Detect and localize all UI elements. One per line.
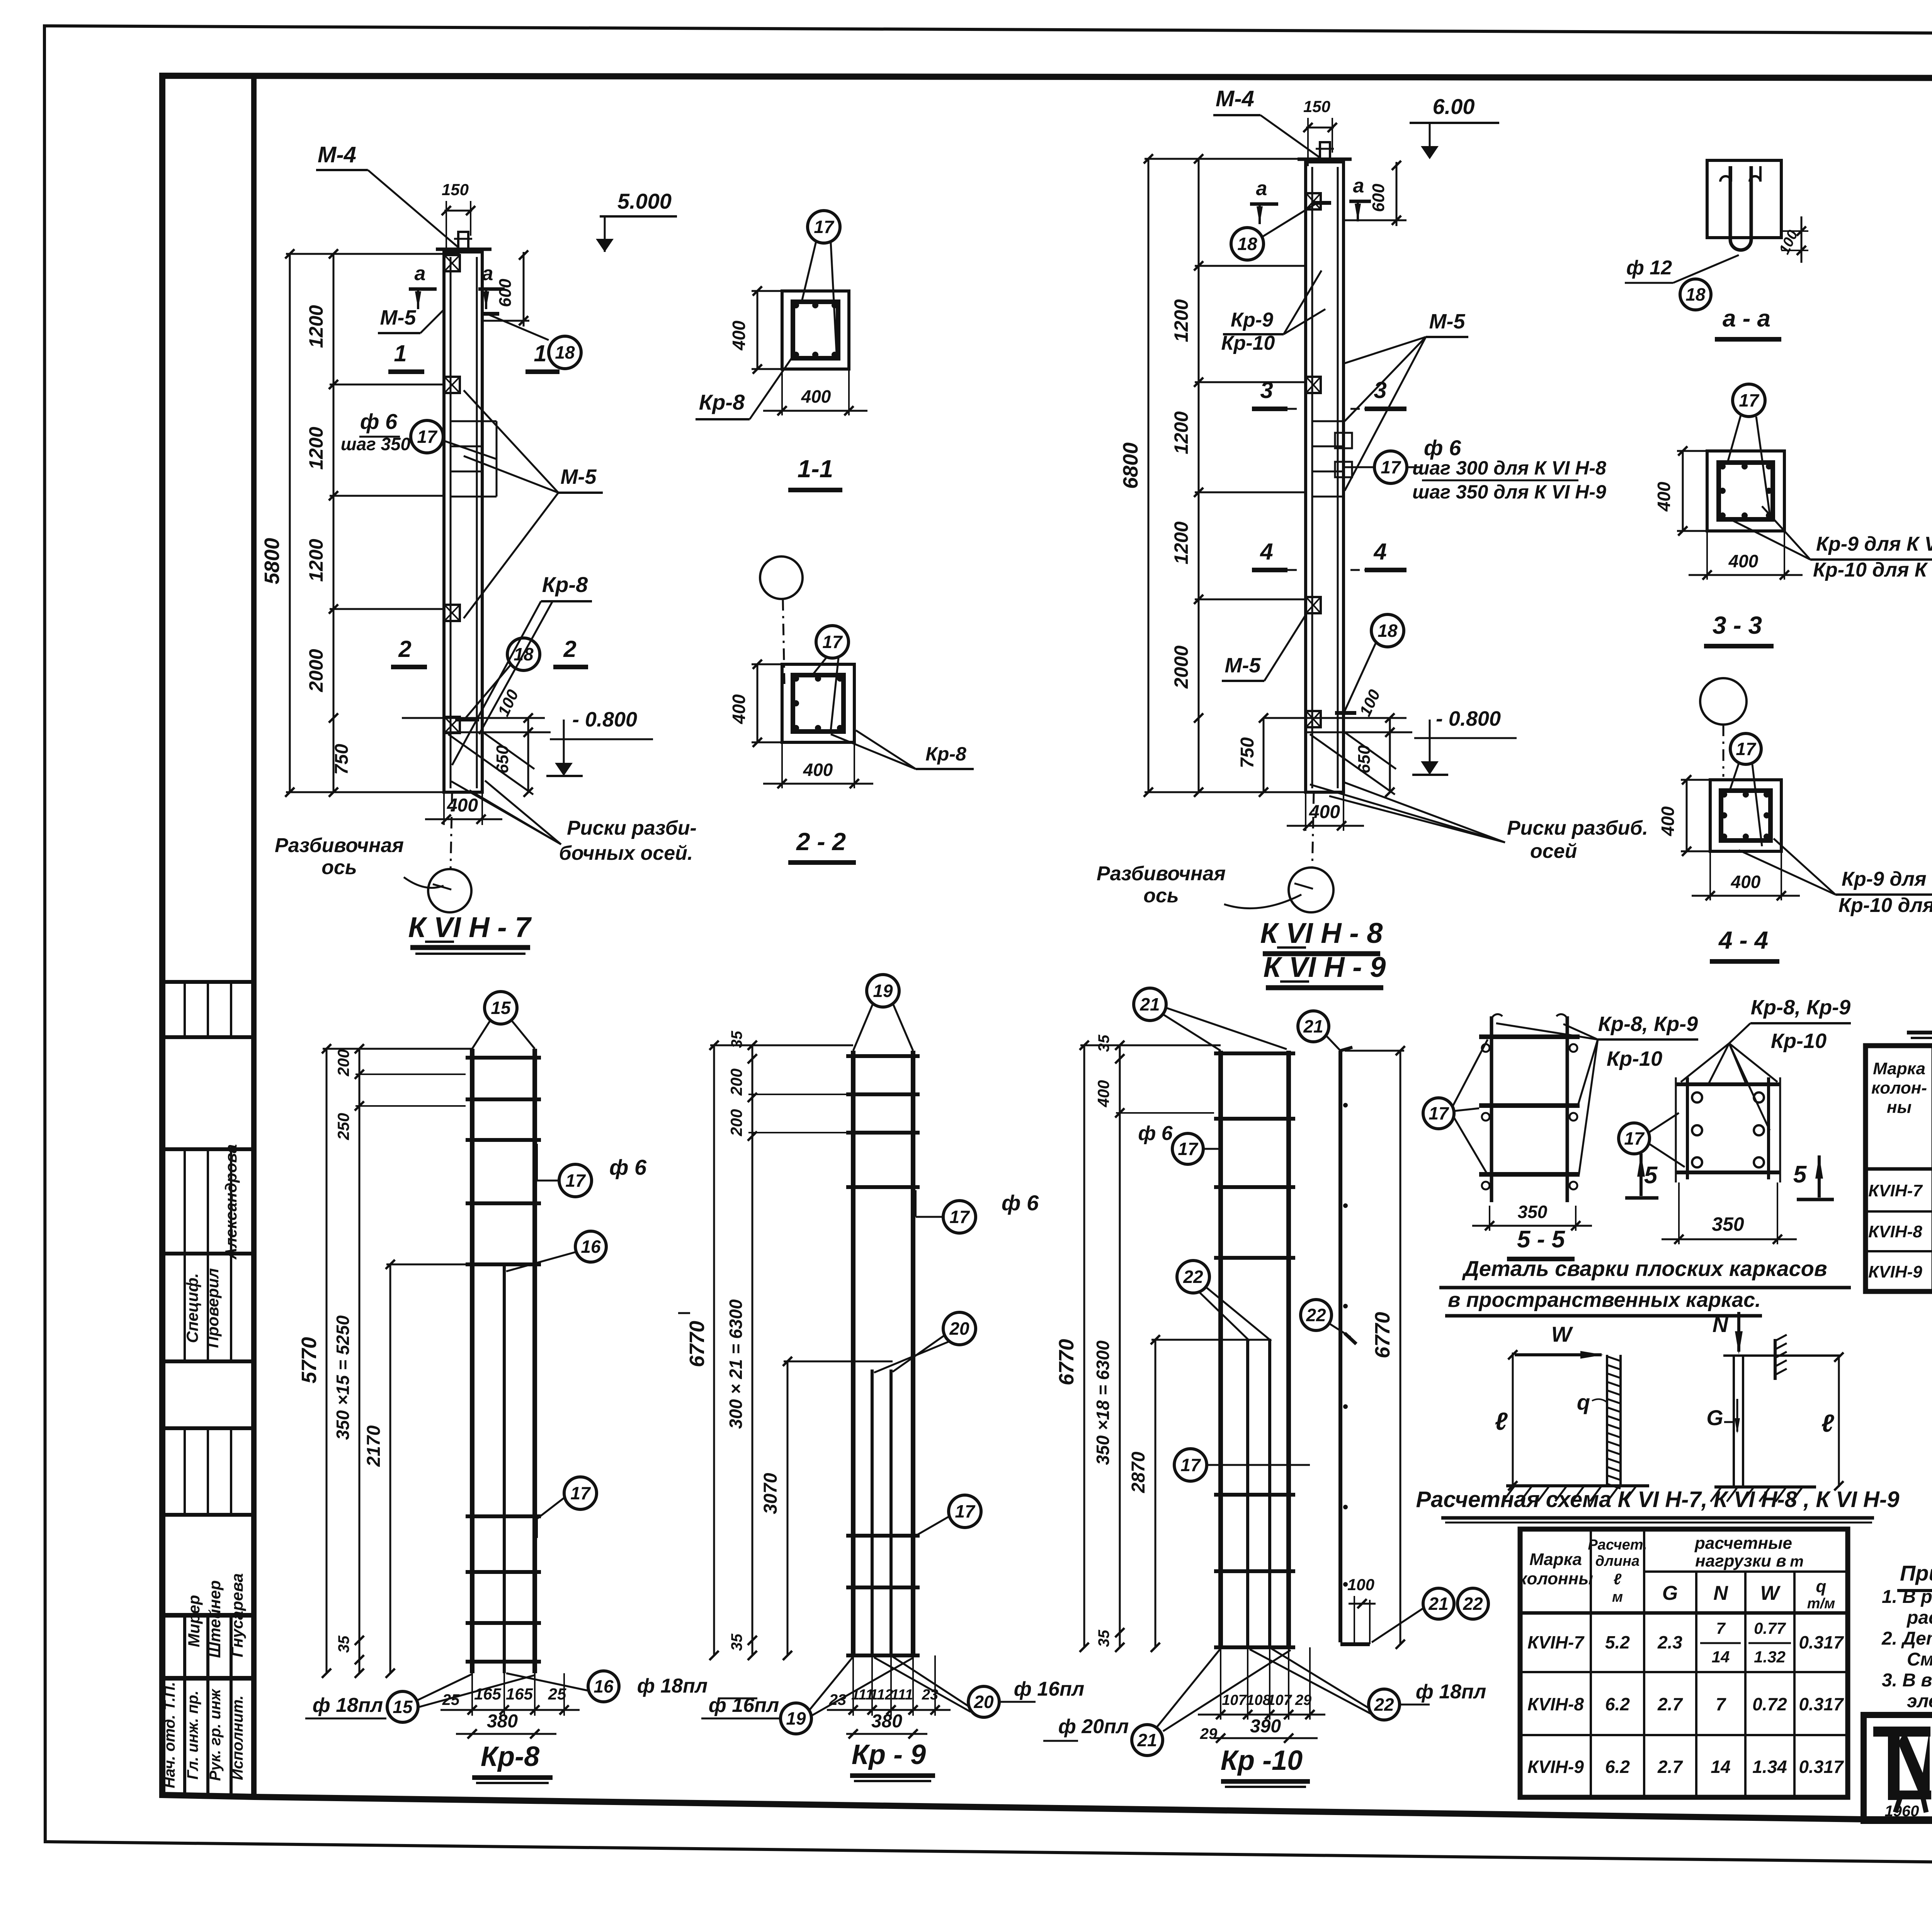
svg-text:Риски разби-: Риски разби- (567, 817, 697, 839)
svg-text:17: 17 (814, 217, 835, 237)
detail 5-5 weld dots (1482, 1044, 1490, 1052)
cage Kr-8 apex and balloon 15 (485, 992, 517, 1024)
svg-text:КVIН-8: КVIН-8 (1527, 1694, 1584, 1714)
svg-text:5: 5 (1793, 1161, 1807, 1188)
svg-text:400: 400 (1658, 806, 1678, 836)
svg-text:- 0.800: - 0.800 (1436, 707, 1501, 730)
svg-text:Исполнит.: Исполнит. (229, 1695, 246, 1780)
svg-text:400: 400 (1731, 872, 1761, 892)
svg-text:390: 390 (1250, 1716, 1281, 1737)
detail a-a dim 100 (1781, 230, 1808, 232)
schema left hatched column (1606, 1355, 1608, 1486)
svg-text:21: 21 (1139, 994, 1160, 1014)
svg-text:Кр -10: Кр -10 (1221, 1745, 1303, 1776)
svg-text:Кр-10 для К VI Н-9: Кр-10 для К VI Н-9 (1838, 894, 1932, 917)
svg-text:нагрузки в: нагрузки в (1695, 1552, 1786, 1570)
label Kr-8 right of 2-2 (856, 730, 916, 769)
svg-text:q: q (1816, 1577, 1827, 1596)
cage Kr-8 rungs (466, 1056, 541, 1060)
cage Kr-8 chain 350x15 (359, 1049, 361, 1673)
svg-text:21: 21 (1137, 1730, 1157, 1750)
single bar poz21-22 (1338, 1051, 1342, 1642)
svg-text:20: 20 (973, 1692, 994, 1712)
detail 5-5 right fan leaders (1681, 1043, 1729, 1082)
cage Kr-9 chain 3070 (787, 1361, 789, 1655)
svg-text:К VI Н - 7: К VI Н - 7 (408, 911, 532, 943)
svg-text:200: 200 (727, 1068, 745, 1096)
section 2-2 stirrup (793, 675, 844, 732)
svg-text:2170: 2170 (364, 1425, 384, 1467)
svg-text:Марка: Марка (1873, 1059, 1925, 1078)
balloon 17 above 4-4 (1730, 733, 1761, 764)
svg-text:2.7: 2.7 (1657, 1694, 1683, 1714)
svg-text:2.3: 2.3 (1657, 1632, 1682, 1652)
svg-text:шаг 350 для К VI Н-9: шаг 350 для К VI Н-9 (1412, 481, 1606, 503)
svg-text:Деталь сварки плоских каркасов: Деталь сварки плоских каркасов (1462, 1256, 1827, 1281)
cage Kr-9 inner bars poz20 (871, 1369, 874, 1655)
svg-text:ℓ: ℓ (1495, 1407, 1508, 1435)
sidebar stamp name block (162, 1613, 254, 1618)
svg-text:35: 35 (1095, 1034, 1112, 1052)
svg-text:2870: 2870 (1128, 1451, 1149, 1493)
svg-text:0.317: 0.317 (1799, 1757, 1844, 1777)
column KVIN-7 base risk lines (425, 717, 545, 719)
svg-text:шаг 350: шаг 350 (341, 434, 411, 454)
dim 400 left of 3-3 (1677, 450, 1707, 452)
svg-text:ℓ: ℓ (1821, 1409, 1834, 1437)
svg-text:35: 35 (335, 1635, 352, 1653)
svg-text:17: 17 (417, 427, 438, 447)
single bar balloon 21 top (1298, 1011, 1329, 1042)
svg-text:Нач. отд. Т.П.: Нач. отд. Т.П. (161, 1682, 178, 1788)
svg-text:350 ×15 = 5250: 350 ×15 = 5250 (333, 1315, 353, 1440)
svg-text:3070: 3070 (760, 1473, 781, 1514)
svg-text:22: 22 (1183, 1267, 1203, 1287)
svg-text:21: 21 (1428, 1594, 1448, 1614)
cage Kr-8 dim 5770 (326, 1049, 328, 1673)
svg-text:ф 6: ф 6 (1138, 1122, 1173, 1145)
logo TD monogram (1873, 1727, 1930, 1737)
cage Kr-9 dim 6770 (713, 1045, 715, 1655)
cage Kr-10 main bars (1218, 1051, 1223, 1647)
svg-text:165: 165 (506, 1685, 533, 1703)
svg-text:ф 6: ф 6 (609, 1155, 647, 1179)
cage Kr-10 bottom dims (1220, 1647, 1221, 1720)
column KVIN-7 top cap plate M-4 (436, 248, 492, 251)
svg-text:К VI Н - 9: К VI Н - 9 (1264, 951, 1386, 983)
svg-text:Кр-8, Кр-9: Кр-8, Кр-9 (1751, 996, 1850, 1019)
svg-text:КVIН-7: КVIН-7 (1527, 1632, 1585, 1652)
svg-text:Штейнер: Штейнер (206, 1580, 224, 1658)
svg-text:2: 2 (398, 636, 411, 662)
svg-text:шаг 300 для К VI Н-8: шаг 300 для К VI Н-8 (1412, 457, 1606, 479)
schema right ground (1714, 1485, 1816, 1489)
svg-text:ф 12: ф 12 (1626, 257, 1672, 279)
dim 600 right of top (482, 320, 529, 322)
svg-text:Кр-10 для К VI Н-9: Кр-10 для К VI Н-9 (1813, 559, 1932, 581)
svg-text:29: 29 (1295, 1692, 1311, 1708)
svg-text:а: а (415, 262, 426, 285)
svg-text:ось: ось (1143, 885, 1179, 907)
schema right dim (1838, 1356, 1840, 1487)
svg-text:а - а: а - а (1723, 305, 1770, 332)
svg-text:Кр-9: Кр-9 (1231, 309, 1273, 331)
svg-text:Разбивочная: Разбивочная (1097, 863, 1226, 885)
svg-text:6.2: 6.2 (1605, 1757, 1630, 1777)
svg-text:М-5: М-5 (1429, 310, 1466, 333)
cage Kr-9 balloon 20 upper (943, 1312, 976, 1345)
svg-text:0.317: 0.317 (1799, 1694, 1844, 1714)
svg-text:1200: 1200 (1170, 299, 1192, 342)
svg-text:1.34: 1.34 (1752, 1757, 1787, 1777)
cage Kr-8 balloon 16 bottom right (588, 1671, 619, 1702)
cage Kr-8 balloon 16 (575, 1231, 606, 1262)
title block frame (1864, 1715, 1932, 1821)
svg-text:ф 20пл: ф 20пл (1058, 1715, 1129, 1738)
svg-text:Проверил: Проверил (204, 1268, 222, 1348)
svg-text:4 - 4: 4 - 4 (1718, 926, 1768, 954)
schema right wall support (1774, 1339, 1777, 1380)
svg-text:1: 1 (534, 340, 546, 366)
svg-text:17: 17 (1381, 457, 1401, 477)
svg-text:35: 35 (728, 1633, 745, 1651)
svg-text:18: 18 (1237, 234, 1257, 254)
detail 5-5 right balloon 17 (1619, 1123, 1650, 1154)
section 1-1 stirrup (793, 302, 838, 358)
schema right column (1733, 1356, 1735, 1487)
svg-text:16: 16 (594, 1676, 614, 1696)
svg-text:3 - 3: 3 - 3 (1713, 611, 1762, 639)
svg-text:400: 400 (801, 386, 831, 407)
svg-text:3: 3 (1260, 377, 1273, 403)
svg-text:6.00: 6.00 (1433, 94, 1475, 119)
svg-text:18: 18 (555, 342, 575, 362)
svg-text:ны: ны (1887, 1098, 1912, 1117)
svg-text:17: 17 (1180, 1455, 1201, 1475)
svg-text:бочных осей.: бочных осей. (559, 842, 693, 864)
single bar dim 6770 (1400, 1051, 1401, 1644)
svg-text:17: 17 (1736, 739, 1757, 759)
column KVIN-7 embed plates M-5 (444, 255, 460, 271)
section 2-2 concrete square (782, 664, 854, 742)
svg-text:400: 400 (729, 320, 749, 350)
svg-text:Кр-10: Кр-10 (1607, 1047, 1662, 1070)
svg-text:а: а (482, 262, 493, 285)
cage Kr-8 balloon 17 phi6 (559, 1164, 592, 1197)
svg-text:7: 7 (1716, 1619, 1726, 1637)
section arrows 5 right (1815, 1155, 1823, 1179)
detail a-a hairpin bar (1730, 166, 1751, 250)
svg-text:Марка: Марка (1529, 1550, 1582, 1569)
svg-text:750: 750 (332, 744, 352, 775)
detail 5-5 right dim 350 (1678, 1182, 1680, 1244)
cage Kr-9 balloon 17 phi6 (943, 1201, 976, 1233)
cage Kr-9 top extension (710, 1045, 853, 1046)
svg-text:а: а (1256, 177, 1267, 200)
section 1-1 concrete square (782, 291, 849, 369)
cage Kr-10 rungs (1214, 1051, 1295, 1055)
razbivochnaya axis circle KVIN-7 (451, 792, 452, 870)
svg-text:КVIН-9: КVIН-9 (1868, 1262, 1922, 1281)
svg-text:14: 14 (1711, 1757, 1730, 1777)
svg-text:4: 4 (1260, 539, 1273, 565)
detail 5-5 ladder bars (1490, 1016, 1493, 1202)
svg-text:Примечания:: Примечания: (1900, 1561, 1932, 1585)
dim chain 6800 (1148, 159, 1150, 792)
svg-text:М-5: М-5 (561, 465, 597, 488)
svg-text:17: 17 (1178, 1139, 1199, 1159)
svg-text:Расчетная схема К VI Н-7, К: Расчетная схема К VI Н-7, К VI Н-8 , К V… (1416, 1487, 1899, 1512)
svg-text:Гл. инж. пр.: Гл. инж. пр. (184, 1691, 201, 1779)
dim 600 right of top middle (1344, 219, 1406, 221)
svg-text:0.77: 0.77 (1754, 1619, 1786, 1637)
svg-text:Кр - 9: Кр - 9 (852, 1739, 926, 1770)
base risk lines middle (1287, 717, 1406, 719)
balloon 17 above 3-3 (1733, 384, 1765, 417)
svg-text:1200: 1200 (1170, 411, 1192, 454)
svg-text:Специф.: Специф. (183, 1273, 201, 1343)
svg-text:23: 23 (829, 1691, 847, 1708)
svg-text:18: 18 (514, 644, 534, 664)
svg-text:1-1: 1-1 (798, 455, 833, 483)
svg-text:Кр-8, Кр-9: Кр-8, Кр-9 (1598, 1012, 1698, 1036)
svg-text:Александрова: Александрова (222, 1144, 240, 1260)
section 4-4 stirrup (1721, 791, 1770, 840)
dim chain 5800 left (289, 254, 291, 792)
svg-text:Разбивочная: Разбивочная (275, 834, 404, 857)
svg-text:М-5: М-5 (380, 306, 417, 329)
svg-text:17: 17 (1624, 1128, 1645, 1148)
foundation diagonals (448, 734, 533, 794)
razbivochnaya axis circle middle (1312, 792, 1314, 869)
svg-text:380: 380 (871, 1711, 902, 1732)
svg-text:350: 350 (1712, 1213, 1744, 1235)
sidebar stamp rows (162, 980, 254, 984)
svg-text:19: 19 (873, 981, 893, 1001)
svg-text:1200: 1200 (305, 427, 327, 470)
svg-text:600: 600 (496, 279, 515, 307)
svg-text:7: 7 (1716, 1694, 1726, 1714)
svg-text:17: 17 (822, 632, 843, 652)
cage Kr-8 bottom dims (471, 1673, 473, 1716)
svg-text:расчетные нагрузки.: расчетные нагрузки. (1906, 1608, 1932, 1628)
svg-text:Кр-10: Кр-10 (1771, 1029, 1827, 1053)
svg-text:150: 150 (442, 180, 469, 199)
section 4-4 concrete square (1710, 780, 1781, 851)
svg-text:3: 3 (1374, 377, 1386, 403)
svg-text:25: 25 (442, 1691, 460, 1708)
balloon 17 above 1-1 (808, 211, 840, 243)
svg-text:18: 18 (1378, 621, 1398, 641)
svg-text:250: 250 (334, 1113, 352, 1140)
dim 400 left of 4-4 (1681, 779, 1710, 781)
balloon 18 lower middle (1371, 614, 1404, 647)
cage Kr-8 balloon 15 bottom left (387, 1691, 418, 1722)
nagruzki table grid (1520, 1529, 1848, 1797)
section 3-3 stirrup (1719, 463, 1773, 519)
svg-text:400: 400 (1728, 551, 1759, 571)
svg-text:а: а (1353, 175, 1364, 197)
svg-text:осей: осей (1530, 840, 1577, 863)
svg-text:1.32: 1.32 (1754, 1648, 1786, 1666)
cage Kr-8 main bars (470, 1049, 474, 1673)
cage Kr-8 balloon 17 lower (564, 1477, 597, 1509)
svg-text:0.317: 0.317 (1799, 1632, 1844, 1652)
svg-text:N: N (1713, 1312, 1729, 1337)
svg-text:5770: 5770 (298, 1337, 321, 1383)
svg-text:14: 14 (1712, 1648, 1730, 1666)
svg-text:- 0.800: - 0.800 (572, 708, 637, 731)
dim chain middle 1200s (1198, 159, 1200, 792)
svg-text:25: 25 (548, 1685, 566, 1703)
svg-text:17: 17 (949, 1207, 970, 1227)
svg-text:КVIН-7: КVIН-7 (1868, 1181, 1923, 1200)
svg-text:17: 17 (570, 1483, 591, 1503)
cage Kr-10 balloon 17 lower (1174, 1449, 1207, 1481)
svg-text:G: G (1662, 1582, 1678, 1604)
svg-text:650: 650 (493, 745, 512, 774)
cage Kr-10 apex balloon 21 (1134, 988, 1166, 1021)
balloon 17 above 2-2 (816, 626, 849, 658)
svg-text:Кр-9 для К VI Н-8: Кр-9 для К VI Н-8 (1816, 533, 1932, 555)
svg-text:100: 100 (1347, 1575, 1374, 1594)
balloon 18 upper with leader (485, 313, 549, 340)
svg-text:17: 17 (565, 1170, 586, 1191)
svg-text:4: 4 (1373, 539, 1386, 565)
dim 400 left of 1-1 (752, 290, 782, 292)
svg-text:2: 2 (563, 636, 576, 662)
svg-text:Расчет.: Расчет. (1588, 1537, 1647, 1553)
svg-text:К VI Н - 8: К VI Н - 8 (1260, 917, 1383, 949)
svg-text:Мирер: Мирер (185, 1595, 203, 1647)
svg-text:ф 16пл: ф 16пл (709, 1694, 779, 1717)
svg-text:111: 111 (891, 1687, 913, 1703)
svg-text:22: 22 (1306, 1305, 1326, 1325)
svg-text:Гнусарева: Гнусарева (228, 1573, 246, 1657)
svg-text:17: 17 (1739, 390, 1760, 410)
svg-text:т/м: т/м (1807, 1596, 1835, 1612)
svg-text:6770: 6770 (1055, 1339, 1078, 1385)
svg-text:ф 18пл: ф 18пл (637, 1675, 707, 1697)
svg-text:350: 350 (1518, 1202, 1548, 1222)
svg-text:Риски разбиб.: Риски разбиб. (1507, 817, 1648, 839)
balloon 18 lower with leader (507, 638, 540, 670)
svg-text:Кр-8: Кр-8 (481, 1741, 539, 1772)
svg-text:6800: 6800 (1119, 442, 1142, 489)
svg-text:107: 107 (1222, 1692, 1247, 1708)
svg-text:107: 107 (1267, 1692, 1292, 1708)
svg-text:16: 16 (581, 1237, 601, 1257)
svg-text:6.2: 6.2 (1605, 1694, 1630, 1714)
svg-text:17: 17 (955, 1501, 976, 1521)
cage Kr-9 bottom dims (852, 1655, 854, 1716)
extension lines left of column (286, 253, 460, 255)
column KVIN-8 body (1306, 162, 1344, 792)
section 3-3 concrete square (1707, 451, 1784, 531)
cage Kr-10 chain 350x18 (1119, 1045, 1121, 1647)
detail 5-5 balloon 17 (1423, 1098, 1454, 1129)
svg-text:400: 400 (1094, 1080, 1112, 1108)
svg-text:т: т (1790, 1553, 1804, 1570)
svg-text:N: N (1713, 1582, 1728, 1604)
dim 400 below 1-1 (781, 369, 783, 415)
svg-text:W: W (1760, 1582, 1781, 1604)
svg-text:ф 18пл: ф 18пл (1416, 1681, 1486, 1703)
svg-text:5: 5 (1644, 1162, 1658, 1189)
svg-text:165: 165 (474, 1685, 502, 1703)
svg-text:6770: 6770 (1371, 1312, 1394, 1358)
svg-text:400: 400 (803, 760, 833, 780)
cage Kr-8 chain 2170 (389, 1264, 391, 1673)
svg-text:М-4: М-4 (318, 142, 356, 167)
svg-text:ось: ось (321, 856, 357, 879)
dim chain 1200 segments (333, 254, 335, 792)
svg-text:G: G (1706, 1405, 1723, 1430)
svg-text:200: 200 (727, 1109, 745, 1136)
svg-text:21: 21 (1303, 1016, 1323, 1036)
svg-text:длина: длина (1595, 1553, 1639, 1569)
detail a-a concrete block (1707, 160, 1781, 238)
svg-text:2000: 2000 (1170, 645, 1192, 689)
bottom dim 400 (443, 792, 445, 825)
svg-text:Кр-8: Кр-8 (542, 572, 588, 597)
schema left dim line (1512, 1352, 1514, 1486)
svg-text:м: м (1612, 1589, 1623, 1605)
cage Kr-10 inner bars (1246, 1340, 1249, 1647)
svg-text:5800: 5800 (260, 538, 284, 584)
svg-text:в пространственных каркас.: в пространственных каркас. (1448, 1288, 1761, 1312)
cage Kr-9 main bars (851, 1051, 855, 1655)
svg-text:6770: 6770 (685, 1321, 709, 1367)
svg-text:1. В расчетнси схеме колон: 1. В расчетнси схеме колонн указаны (1882, 1587, 1932, 1607)
balloon 18 top middle (1231, 228, 1264, 260)
cage Kr-8 top extension (323, 1048, 472, 1050)
svg-text:200: 200 (334, 1049, 352, 1077)
svg-text:ф 6: ф 6 (1424, 436, 1461, 460)
svg-text:колонны: колонны (1518, 1569, 1593, 1588)
detail 5-5 rungs (1479, 1034, 1580, 1039)
svg-text:W: W (1551, 1322, 1573, 1346)
svg-text:112: 112 (870, 1687, 893, 1703)
svg-text:3. В выборку стали включен: 3. В выборку стали включены закладные (1882, 1670, 1932, 1691)
cage Kr-10 top extension (1080, 1045, 1221, 1046)
column KVIN-7 mid stirrup marks (451, 420, 482, 422)
cage Kr-10 dim 6770 (1083, 1045, 1085, 1647)
cage Kr-9 balloon 17 lower (949, 1495, 981, 1528)
svg-text:29: 29 (1200, 1725, 1218, 1742)
svg-text:380: 380 (487, 1711, 518, 1732)
column KVIN-8 top cap (1298, 158, 1352, 161)
detail 5-5 right weld circles (1692, 1092, 1702, 1102)
svg-text:300 × 21 = 6300: 300 × 21 = 6300 (726, 1299, 746, 1429)
bottom dim 400 middle (1305, 792, 1306, 831)
svg-text:650: 650 (1355, 745, 1374, 774)
svg-text:1960: 1960 (1885, 1803, 1919, 1820)
cage Kr-9 bottom balloons (781, 1703, 811, 1734)
svg-text:КVIН-9: КVIН-9 (1527, 1757, 1584, 1777)
cage Kr-9 apex balloon 19 (867, 975, 899, 1007)
svg-text:q: q (1577, 1390, 1590, 1414)
schema right N arrow (1737, 1312, 1740, 1352)
extension lines middle column (1145, 158, 1321, 160)
axis circle above 2-2 (760, 556, 803, 599)
schema left W arrow (1515, 1353, 1602, 1356)
svg-text:18: 18 (1685, 284, 1706, 305)
dim 400 below 3-3 (1706, 531, 1708, 580)
svg-text:23: 23 (922, 1687, 938, 1703)
cage Kr-9 rungs (846, 1054, 920, 1058)
svg-text:5 - 5: 5 - 5 (1517, 1226, 1566, 1253)
